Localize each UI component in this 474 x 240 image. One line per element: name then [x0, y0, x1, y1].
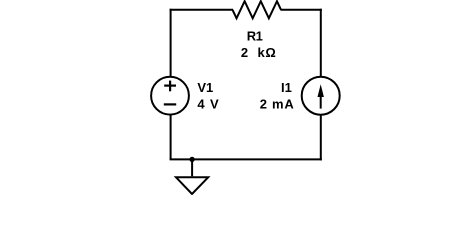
ground	[176, 159, 208, 194]
svg-text:4 V: 4 V	[197, 97, 219, 112]
wire: top-left horizontal	[170, 9, 233, 11]
svg-text:kΩ: kΩ	[258, 45, 277, 60]
svg-text:R1: R1	[247, 28, 263, 43]
svg-text:V1: V1	[197, 80, 213, 95]
svg-text:2: 2	[241, 45, 248, 60]
wire: right vertical lower	[320, 115, 322, 161]
svg-text:2 mA: 2 mA	[260, 97, 295, 112]
resistor R1	[233, 1, 282, 60]
wire: bottom horizontal	[170, 158, 322, 160]
svg-text:I1: I1	[281, 80, 292, 95]
wire: left vertical lower	[170, 115, 172, 160]
voltage source V1	[151, 77, 220, 115]
current source I1	[260, 77, 340, 115]
wire: top-right horizontal	[281, 9, 322, 11]
node: junction dot	[189, 157, 194, 162]
wire: left vertical upper	[170, 9, 172, 77]
wire: right vertical upper	[320, 9, 322, 77]
